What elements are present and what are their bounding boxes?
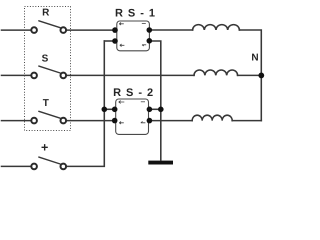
svg-text:N: N	[251, 52, 258, 63]
svg-text:+: +	[41, 141, 48, 155]
svg-text:R: R	[42, 7, 50, 18]
svg-text:RS-2: RS-2	[113, 87, 158, 99]
svg-text:RS-1: RS-1	[115, 8, 160, 20]
svg-text:T: T	[43, 98, 49, 109]
svg-text:S: S	[42, 53, 49, 64]
